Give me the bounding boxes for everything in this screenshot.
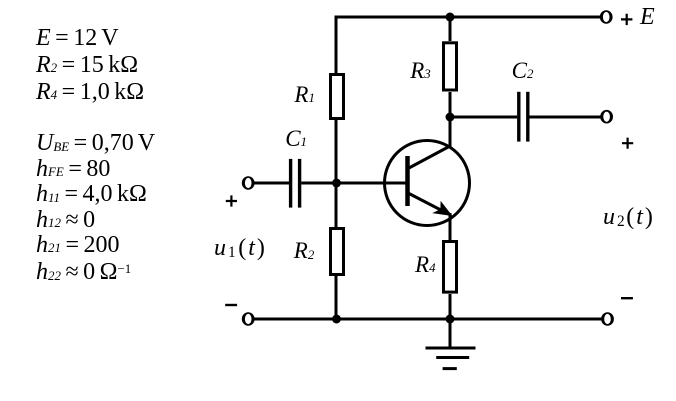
transistor Q1 base bar (405, 156, 410, 206)
terminal: output - (601, 312, 614, 326)
label R3 (410, 59, 431, 82)
value label h12 = 0 (36, 208, 95, 232)
terminal: +E supply (600, 10, 613, 24)
label C1 (285, 127, 307, 150)
resistor R1 (331, 75, 344, 119)
label R1 (294, 83, 315, 106)
value label hFE = 80 (36, 157, 110, 181)
wire: R2 bottom to bottom rail (335, 276, 338, 320)
label R2 (294, 239, 315, 262)
value label E = 12 V (36, 26, 119, 50)
value label UBE = 0,70 V (36, 131, 155, 155)
wire: transistor emitter to R4 (449, 213, 452, 240)
capacitor C2 (519, 92, 528, 142)
label C2 (512, 59, 534, 82)
node: input / R1 / R2 junction (332, 179, 341, 188)
wire: C1 to input node to transistor base (301, 182, 405, 185)
resistor R3 (444, 43, 457, 90)
wire: top rail to R3 (449, 16, 452, 42)
resistor R4 (444, 242, 457, 293)
terminal: output + (600, 110, 613, 124)
value label h22 = 0 Ohm^-1 (36, 260, 131, 284)
resistor R2 (331, 229, 344, 275)
terminal: input - (242, 312, 255, 326)
transistor Q1 collector diagonal (408, 146, 451, 169)
wire: input terminal to C1 (253, 182, 289, 185)
value label h21 = 200 (36, 233, 120, 257)
capacitor C1 (291, 159, 300, 208)
wire: collector node to C2 (450, 116, 517, 119)
transistor Q1 emitter arrowhead (432, 201, 452, 216)
transistor Q1 emitter diagonal (408, 193, 451, 215)
value label R4 = 1,0 kOhm (36, 80, 144, 104)
value label h11 = 4,0 kOhm (36, 182, 147, 206)
value label R2 = 15 kOhm (36, 53, 138, 77)
wire: R3 bottom through collector node to transistor (449, 92, 452, 147)
label R4 (415, 253, 436, 276)
ground symbol (426, 319, 476, 369)
wire: R1 bottom through input node to R2 top (335, 120, 338, 227)
node: R2 / bottom rail junction (332, 315, 341, 324)
node: ground / bottom rail junction (446, 315, 455, 324)
wire: +E top rail and drop to R1 (336, 17, 601, 73)
node: top rail / R3 junction (446, 13, 455, 22)
label u2(t) (603, 205, 655, 229)
wire: bottom rail (253, 318, 602, 321)
wire: R4 bottom to ground node (449, 294, 452, 320)
transistor Q1 body circle (385, 141, 470, 226)
label u1(t) (214, 236, 267, 260)
terminal: input + (242, 176, 255, 190)
wire: C2 to output terminal (529, 116, 601, 119)
node: collector / R3 / C2 junction (446, 113, 455, 122)
